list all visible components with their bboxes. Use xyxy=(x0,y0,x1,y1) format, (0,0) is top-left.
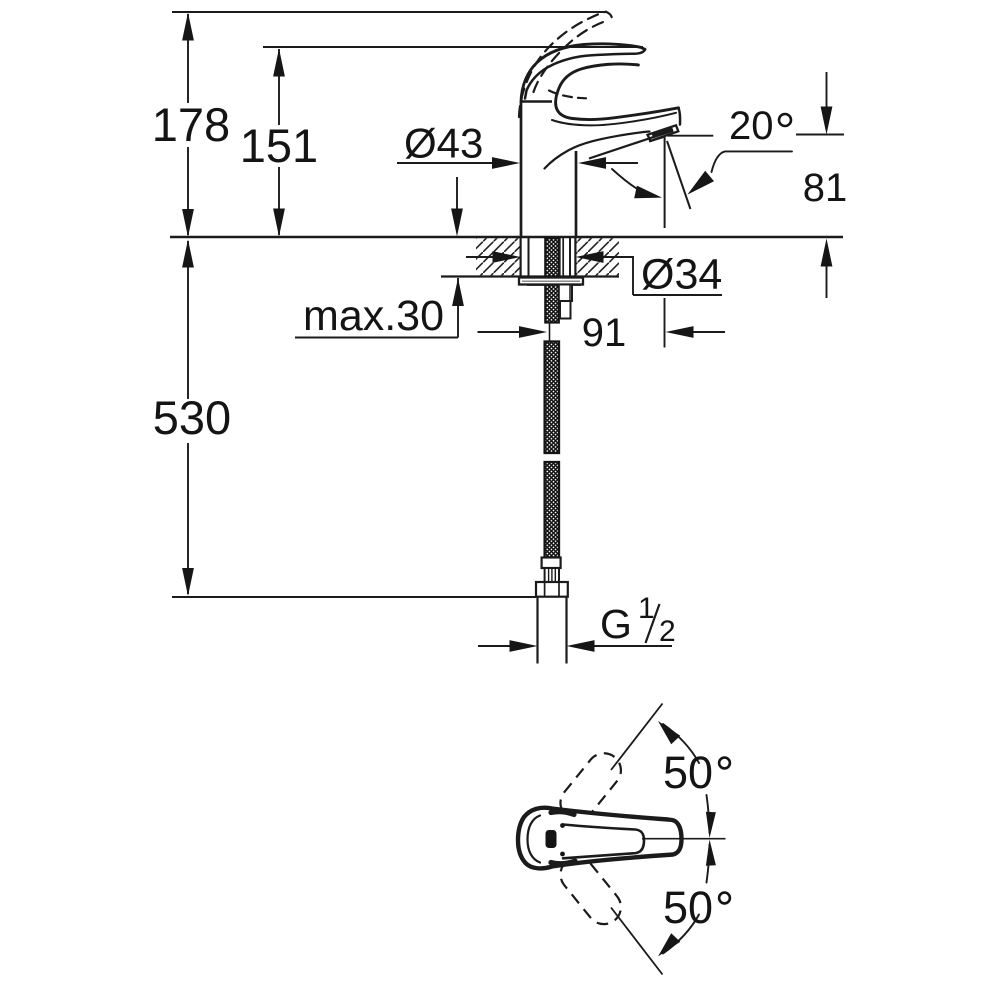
raised handle outer (dashed) xyxy=(519,12,606,117)
handle top view outline xyxy=(518,808,682,869)
raised handle position upper (dashed) xyxy=(554,746,628,826)
counter top surface line xyxy=(170,236,843,238)
dimension G1/2 right arrow xyxy=(567,640,673,652)
spout top inner line xyxy=(552,113,676,126)
faucet body right edge xyxy=(575,151,578,236)
faucet body left edge xyxy=(520,102,523,236)
dimension max.30 leader xyxy=(295,278,458,338)
counter cross-section hatch left xyxy=(476,238,521,275)
raised handle crossing edge (dashed) xyxy=(549,91,586,99)
svg-text:151: 151 xyxy=(240,119,318,172)
G1/2 tube left edge xyxy=(536,597,538,664)
handle junction blob top xyxy=(551,812,574,815)
svg-text:50: 50 xyxy=(663,747,713,798)
dimension D43 right arrow xyxy=(578,157,638,169)
shank left edge xyxy=(528,238,530,276)
svg-text:530: 530 xyxy=(153,391,231,444)
dimension G1/2 text xyxy=(600,592,676,648)
valve block lower xyxy=(560,301,571,319)
handle knob inner arc xyxy=(528,816,541,863)
svg-text:20: 20 xyxy=(729,104,774,148)
spout underside line xyxy=(589,132,669,159)
50deg lower arc xyxy=(658,840,716,957)
dimension 178 line xyxy=(182,13,194,238)
top view centerline xyxy=(642,838,726,840)
shank right edge xyxy=(569,238,571,276)
knurled collar xyxy=(545,568,559,582)
aerator xyxy=(648,125,679,141)
G1/2 tube right edge xyxy=(565,597,567,664)
dimension 20deg angled line xyxy=(667,141,690,209)
dimension 20deg degree sign xyxy=(779,114,791,126)
deck hole left wall xyxy=(519,238,521,276)
svg-text:2: 2 xyxy=(659,615,676,648)
hose core line xyxy=(549,323,551,342)
counter bottom line xyxy=(441,275,619,277)
shank inner line a xyxy=(559,238,561,276)
handle outer curve xyxy=(521,44,645,102)
dimension 20deg outlet vertical line xyxy=(664,137,666,228)
hose ferrule xyxy=(542,558,561,569)
svg-text:178: 178 xyxy=(152,98,230,151)
handle tip and lower edge xyxy=(525,49,645,98)
handle junction blob bottom xyxy=(551,861,575,864)
dimension 91 ext line xyxy=(664,298,666,348)
dimension 151 extension line xyxy=(263,46,643,48)
dimension 81 ext line xyxy=(796,134,844,136)
handle loop C-curve into spout top edge xyxy=(556,64,679,120)
mounting flange xyxy=(519,278,583,285)
dimension 91 right arrow xyxy=(666,326,726,338)
dimension 20deg lower leader xyxy=(687,151,792,194)
handle inner outline xyxy=(563,825,644,859)
valve block upper xyxy=(559,285,572,302)
50deg upper degree sign xyxy=(719,758,730,769)
dimension 530 extension line bottom xyxy=(172,596,536,598)
flexible hose lower segment xyxy=(545,462,559,558)
raised handle tip cap (dashed) xyxy=(606,12,612,22)
dimension D34 leader xyxy=(633,256,722,295)
svg-text:Ø34: Ø34 xyxy=(641,251,722,299)
dimension 178 extension line top xyxy=(172,11,606,13)
50deg upper arc xyxy=(658,721,716,838)
raised handle position lower (dashed) xyxy=(554,851,628,931)
dimension G1/2 left arrow xyxy=(478,640,538,652)
dimension 81 bottom arrow xyxy=(821,239,833,299)
dimension 20deg upper leader xyxy=(667,135,713,137)
svg-text:1: 1 xyxy=(638,592,655,625)
svg-text:50: 50 xyxy=(663,882,713,933)
dimension D34 left arrow xyxy=(466,251,521,263)
svg-text:G: G xyxy=(600,601,632,647)
handle cartouche xyxy=(546,830,557,848)
svg-text:Ø43: Ø43 xyxy=(404,120,483,167)
svg-text:91: 91 xyxy=(582,311,627,355)
threaded shank (braided rod) xyxy=(545,238,559,323)
dimension 91 left arrow xyxy=(478,326,548,338)
dimension max.30 arrows xyxy=(451,177,464,306)
deck hole right wall xyxy=(574,238,576,276)
dimension 81 top arrow xyxy=(821,72,833,135)
faucet body top line xyxy=(521,100,552,103)
dimension 151 line xyxy=(273,49,285,237)
dimension D34 right arrow xyxy=(576,251,633,263)
dimension D43 left arrow xyxy=(397,157,520,169)
connection nut xyxy=(536,582,568,597)
shank inner line b xyxy=(562,238,564,276)
flexible hose upper segment xyxy=(545,342,559,454)
counter cross-section hatch right xyxy=(577,238,620,275)
50deg lower ray xyxy=(611,908,663,975)
spout underside swoosh xyxy=(545,132,650,169)
dimension 530 line xyxy=(182,240,194,597)
handle dot lower xyxy=(560,852,565,857)
50deg lower degree sign xyxy=(719,893,730,904)
svg-text:81: 81 xyxy=(803,166,848,210)
svg-text:max.30: max.30 xyxy=(303,292,444,340)
raised handle inner (dashed) xyxy=(534,20,609,92)
dimension 20deg left arc xyxy=(612,169,662,198)
handle dot upper xyxy=(560,823,565,828)
spout tip right edge xyxy=(679,108,681,125)
50deg upper ray xyxy=(611,704,663,771)
